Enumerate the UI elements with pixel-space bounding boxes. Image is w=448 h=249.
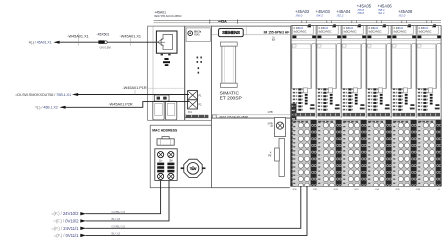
svg-text:-W45A01.X1: -W45A01.X1 bbox=[67, 34, 89, 38]
RJ45 port P1R lower bbox=[153, 101, 164, 120]
svg-text:=(.) / 46B.1.X2: =(.) / 46B.1.X2 bbox=[35, 106, 58, 110]
MAC address box bbox=[150, 125, 211, 188]
station label +45A01 bbox=[154, 11, 182, 19]
svg-text:PE: PE bbox=[268, 155, 272, 158]
BA part number strip bbox=[185, 115, 209, 118]
RJ45 port P2R lower bbox=[165, 101, 176, 120]
module row top edge bbox=[291, 24, 441, 26]
svg-text:=(F.) / 0V11/1: =(F.) / 0V11/1 bbox=[54, 233, 79, 238]
I/O module +45A06 bbox=[391, 24, 417, 189]
rack right edge bbox=[440, 25, 442, 186]
svg-text:-X36: -X36 bbox=[416, 189, 421, 191]
TUV approval mark bbox=[181, 159, 206, 177]
I/O module +45A04 bbox=[341, 24, 367, 189]
wire W45A01.P1R bbox=[78, 94, 189, 96]
svg-text:/56.8: /56.8 bbox=[356, 11, 364, 15]
BaseUnit bottom edge bbox=[290, 187, 443, 193]
module label +45A08 bbox=[398, 9, 413, 17]
arrow P2R bbox=[59, 106, 65, 109]
svg-text:-X31: -X31 bbox=[313, 189, 318, 191]
guide bar bbox=[268, 138, 284, 176]
svg-text:/56.0: /56.0 bbox=[295, 13, 303, 17]
I/O module +45A02 bbox=[291, 24, 317, 189]
RJ45 socket X1 P1 bbox=[156, 31, 177, 53]
svg-text:/54.2: /54.2 bbox=[315, 13, 323, 17]
svg-text:=DI-SW.SMOKXDU756 / 70B.1.X1: =DI-SW.SMOKXDU756 / 70B.1.X1 bbox=[15, 93, 71, 97]
svg-text:1 PB: 1 PB bbox=[267, 111, 273, 114]
IM label slot bbox=[220, 42, 237, 87]
svg-text:-X35: -X35 bbox=[395, 189, 400, 191]
supply wire 0V11/1 bbox=[54, 186, 307, 238]
I/O module +45A03 bbox=[316, 24, 342, 189]
svg-text:=(F.) / 24V11/1: =(F.) / 24V11/1 bbox=[51, 226, 79, 231]
svg-text:ST: ST bbox=[272, 39, 276, 42]
IM type text bbox=[264, 30, 290, 42]
svg-text:4(.) / 45A01.X1: 4(.) / 45A01.X1 bbox=[29, 40, 52, 44]
module label +45A04 bbox=[336, 9, 351, 17]
port bracket bbox=[154, 95, 169, 101]
svg-text:M: M bbox=[271, 125, 273, 128]
SIEMENS logo box bbox=[219, 29, 244, 37]
svg-text:6ES7155-6AU01-0BN0: 6ES7155-6AU01-0BN0 bbox=[154, 14, 182, 18]
SIMATIC ET 200SP lettering bbox=[220, 90, 242, 101]
supply wire 24V11/1 bbox=[51, 186, 300, 231]
svg-text:1L+: 1L+ bbox=[159, 160, 164, 162]
svg-text:/52.0: /52.0 bbox=[398, 13, 406, 17]
svg-text:BU 1,5: BU 1,5 bbox=[112, 232, 121, 236]
module label +45A06 bbox=[377, 3, 392, 15]
IM part number bbox=[212, 115, 291, 119]
cable label -W45A01.P1R bbox=[122, 86, 147, 95]
svg-text:-X30: -X30 bbox=[292, 189, 297, 191]
svg-text:/52.2: /52.2 bbox=[336, 13, 344, 17]
bus adapter tower outline bbox=[148, 26, 185, 120]
svg-text:/61.1: /61.1 bbox=[377, 11, 385, 15]
I/O module +45A08 bbox=[416, 24, 442, 189]
module label +45A03 bbox=[315, 9, 330, 17]
IM lower body bbox=[212, 118, 291, 188]
wire W45A01.P2R bbox=[66, 102, 189, 108]
module label +45A05 bbox=[356, 3, 371, 15]
svg-text:-X32: -X32 bbox=[333, 189, 338, 191]
svg-text:TÜV: TÜV bbox=[190, 166, 197, 171]
LED dots bbox=[197, 57, 202, 74]
DIN mounting rail bbox=[154, 19, 442, 23]
svg-text:IM 155-6PN/3 HF: IM 155-6PN/3 HF bbox=[264, 30, 290, 34]
lower screw terminals bbox=[158, 173, 174, 179]
svg-text:=(F.) / 24V10/2: =(F.) / 24V10/2 bbox=[51, 211, 79, 216]
RJ45 pin ticks bbox=[161, 54, 163, 56]
supply wire 24V10/2 bbox=[51, 181, 161, 217]
svg-text:+45A: +45A bbox=[218, 20, 227, 24]
arrow to off-page left bbox=[53, 41, 59, 44]
arrow P1R bbox=[72, 93, 78, 96]
terminal block hatching bbox=[157, 163, 174, 173]
svg-text:BA 2x: BA 2x bbox=[194, 31, 202, 34]
power terminal block X80 bbox=[155, 149, 177, 181]
svg-text:-X33: -X33 bbox=[354, 189, 359, 191]
BaseUnit designators bbox=[292, 189, 440, 191]
I/O module +45A05 bbox=[366, 24, 392, 189]
svg-text:GY/BU 1,5: GY/BU 1,5 bbox=[112, 210, 126, 214]
svg-text:RJ45: RJ45 bbox=[194, 35, 200, 37]
interface module IM 155-6PN body bbox=[212, 26, 291, 118]
svg-text:SIEMENS: SIEMENS bbox=[222, 30, 240, 35]
svg-text:=(F.) / 0V10/2: =(F.) / 0V10/2 bbox=[53, 218, 79, 223]
svg-text:-W45A01.X1: -W45A01.X1 bbox=[120, 34, 142, 38]
svg-text:XF1: XF1 bbox=[188, 112, 193, 114]
svg-text:BU 1,5: BU 1,5 bbox=[112, 217, 121, 221]
BaseUnit 1 left dark strip bbox=[291, 104, 297, 188]
supply wire 0V10/2 bbox=[53, 181, 169, 224]
wire W45A01.X1 bbox=[60, 33, 157, 45]
svg-text:-W45A01.P2R: -W45A01.P2R bbox=[108, 103, 133, 107]
inline connector 45X501 bbox=[97, 32, 112, 49]
svg-text:GN 0,5M: GN 0,5M bbox=[100, 45, 112, 49]
svg-text:MAC ADDRESS: MAC ADDRESS bbox=[152, 128, 178, 132]
supply terminal 1PB bbox=[267, 111, 285, 137]
BA 2xRJ45 column bbox=[185, 26, 212, 120]
svg-text:-45X501: -45X501 bbox=[97, 32, 110, 36]
svg-text:2M: 2M bbox=[169, 160, 172, 162]
svg-text:ET 200SP: ET 200SP bbox=[220, 95, 242, 101]
supply connector bracket bbox=[157, 137, 174, 146]
svg-text:-X34: -X34 bbox=[374, 189, 379, 191]
svg-text:-W45A01.P1R: -W45A01.P1R bbox=[122, 86, 147, 90]
bus connector P1R/P2R with pins bbox=[188, 91, 202, 109]
port designation X1 P1R bbox=[163, 58, 170, 66]
svg-text:GY/BU 1,5: GY/BU 1,5 bbox=[112, 225, 126, 229]
module label +45A02 bbox=[295, 9, 310, 17]
